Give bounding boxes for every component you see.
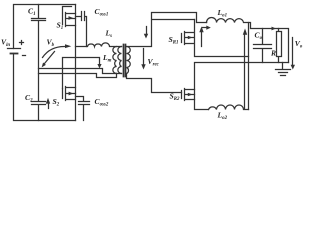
svg-text:Lo2: Lo2 [217,111,228,122]
svg-text:Vb: Vb [47,38,55,49]
svg-text:Coss1: Coss1 [95,7,109,18]
svg-text:SR1: SR1 [169,35,179,46]
svg-text:Co: Co [255,31,263,42]
svg-text:C2: C2 [25,93,33,104]
svg-text:R: R [270,48,276,57]
svg-text:Vin: Vin [1,38,10,49]
svg-text:Lo1: Lo1 [217,8,228,19]
svg-text:Ls: Ls [105,29,113,40]
svg-text:Vo: Vo [295,39,303,50]
svg-text:Vrec: Vrec [148,57,160,68]
svg-text:Lm: Lm [102,53,112,64]
svg-text:C1: C1 [28,7,36,18]
svg-text:Coss2: Coss2 [95,97,109,108]
svg-text:S2: S2 [53,97,60,108]
